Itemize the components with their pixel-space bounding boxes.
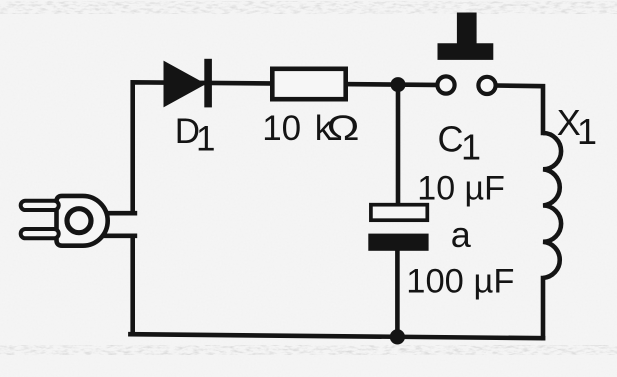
svg-text:Ω: Ω (327, 109, 360, 148)
capacitor C1 bottom plate (solid) (368, 234, 428, 251)
scan artifact band at top (0, 1, 617, 14)
wire: top rail right segment (switch right contact to top-right corner) (488, 85, 543, 133)
svg-text:1: 1 (461, 127, 481, 168)
svg-text:1: 1 (196, 120, 215, 159)
wire: plug lower terminal stub (104, 234, 135, 239)
resistor R1 body (272, 69, 345, 99)
plug P1 center ring (67, 209, 91, 233)
wire: plug upper terminal stub (107, 211, 135, 216)
wire: capacitor branch lower (C1 bottom plate to bottom node) (395, 250, 400, 337)
svg-text:100 µF: 100 µF (406, 263, 514, 301)
plug P1 upper prong (21, 201, 59, 210)
svg-text:1: 1 (577, 111, 597, 152)
switch S1 left contact (437, 76, 454, 93)
wire: left vertical lower segment (plug bottom to bottom rail) (130, 236, 135, 334)
coil X1 (inductor, 4 arcs bulging right) (543, 133, 561, 278)
node B (junction dot bottom) (390, 329, 405, 344)
plug P1 lower prong (21, 229, 59, 238)
wire: top rail left segment (corner to diode, behind resistor to node) (133, 82, 445, 212)
svg-text:10: 10 (262, 109, 301, 148)
wire: right vertical lower segment (coil bottom to bottom rail) (541, 278, 546, 338)
svg-text:10 µF: 10 µF (417, 169, 505, 207)
plug P1 body (57, 196, 108, 246)
wire: bottom rail (130, 334, 543, 338)
svg-text:C: C (438, 118, 464, 159)
svg-text:a: a (451, 214, 472, 255)
node A (junction dot top) (391, 77, 406, 92)
diode D1 cathode bar (204, 59, 212, 108)
switch S1 pushbutton actuator (438, 13, 494, 60)
diode D1 (triangle) (164, 61, 207, 108)
scan artifact band at bottom (0, 345, 617, 355)
capacitor C1 top plate (hollow) (371, 205, 427, 221)
switch S1 right contact (478, 77, 495, 94)
wire: capacitor branch upper (node to C1 top plate) (396, 85, 401, 214)
